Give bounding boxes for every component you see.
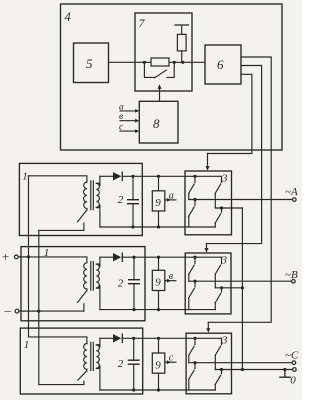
diode VDB: [100, 256, 113, 258]
DC rail positive to inverter: [122, 337, 221, 339]
transformer TC core: [91, 342, 94, 370]
neutral bus vertical from phase A: [241, 208, 243, 370]
svg-text:–: –: [4, 303, 12, 318]
node capacitor bottom: [131, 225, 134, 228]
capacitor CC (label 2): [133, 338, 135, 360]
transformer TA core: [91, 181, 94, 210]
block 6 (distributor): [205, 45, 241, 84]
node mid right leg: [220, 368, 223, 371]
DC rail negative: [100, 389, 215, 391]
unit 9 bottom stub: [158, 291, 160, 310]
phase output wire ~C: [189, 362, 292, 364]
inverter switch lower-right: [221, 208, 223, 212]
transformer TA secondary winding: [96, 183, 99, 207]
secondary top lead: [99, 176, 101, 185]
feedback output arrow a: [165, 199, 176, 201]
inverter block 3 (phase C): [186, 333, 231, 394]
inverter switch upper-right: [221, 176, 223, 182]
svg-text:1: 1: [24, 339, 30, 351]
node mid right leg: [220, 286, 223, 289]
neutral tap wire: [215, 207, 242, 209]
wire R2 bottom lead: [181, 51, 183, 62]
svg-text:в: в: [119, 112, 123, 122]
bus positive (vertical): [28, 176, 30, 337]
wire block6 out1 to phase C inverter: [208, 57, 271, 322]
output terminal ~B: [292, 280, 296, 284]
node unit 9 bottom: [157, 388, 160, 391]
feedback output arrow в: [165, 280, 176, 282]
wire 5 to 7: [109, 61, 152, 63]
resistor R2 (vertical, in block 7): [177, 34, 186, 51]
svg-text:a: a: [169, 190, 174, 201]
switch S1 bypassing R1: [144, 62, 174, 77]
node capacitor top: [131, 175, 134, 178]
node plus bus junction: [27, 255, 30, 258]
node capacitor bottom: [132, 388, 135, 391]
inverter switch upper-left: [194, 338, 196, 344]
svg-text:1: 1: [22, 171, 28, 183]
svg-text:в: в: [169, 271, 174, 282]
unit 9 top stub: [158, 176, 160, 191]
svg-text:2: 2: [118, 358, 124, 370]
node top rail left leg: [193, 175, 196, 178]
inverter switch lower-left: [194, 200, 196, 206]
inverter switch lower-left: [194, 363, 196, 369]
transformer TB primary winding: [84, 263, 87, 289]
node: switch left tap: [143, 61, 146, 64]
output terminal ~C: [292, 361, 296, 365]
unit 9 top stub: [158, 257, 160, 270]
output terminal ~A: [293, 198, 297, 202]
inverter top rail: [221, 256, 223, 258]
unit 9 bottom stub: [158, 211, 160, 227]
svg-text:5: 5: [86, 56, 93, 71]
block 8 (phase control): [139, 101, 178, 143]
input c of block 8: [120, 130, 136, 132]
capacitor CB (label 2): [133, 257, 135, 280]
unit 9 top stub: [158, 338, 160, 353]
feedback output arrow с: [165, 361, 176, 363]
svg-text:~C: ~C: [285, 349, 299, 361]
inverter switch lower-right: [221, 288, 223, 292]
node: R2 tap: [181, 61, 184, 64]
phase output wire ~B: [189, 280, 292, 282]
svg-text:8: 8: [153, 116, 160, 131]
control arrow from block 8 to S1: [159, 89, 161, 102]
converter cell block 1 (phase C): [20, 328, 142, 394]
switch S1 blade: [155, 70, 167, 78]
terminal T above R2: [175, 25, 189, 34]
neutral tap wire: [215, 287, 242, 289]
svg-text:2: 2: [118, 278, 124, 290]
block 7 (regulator): [135, 13, 192, 91]
DC rail positive to inverter: [122, 256, 221, 258]
measuring unit 9 (phase B): [152, 270, 165, 290]
inverter switch lower-left: [194, 281, 196, 287]
DC rail positive to inverter: [122, 175, 221, 177]
control unit block 4: [61, 4, 283, 150]
input a of block 8: [120, 110, 136, 112]
node: switch right tap: [173, 61, 176, 64]
node unit 9 top: [157, 337, 160, 340]
inverter switch upper-left: [194, 257, 196, 263]
svg-text:с: с: [169, 353, 174, 364]
wire block6 out3 to phase A inverter: [208, 74, 252, 153]
node top rail left leg: [193, 337, 196, 340]
DC rail negative: [100, 226, 215, 228]
svg-text:0: 0: [290, 375, 296, 387]
secondary bottom lead: [99, 286, 101, 310]
switch in primary loop: [86, 289, 88, 291]
converter cell block 1 (phase A): [19, 163, 142, 235]
switch in primary loop: [86, 369, 88, 371]
svg-text:а: а: [119, 102, 124, 112]
svg-text:4: 4: [65, 10, 71, 24]
svg-text:9: 9: [155, 277, 161, 289]
switch in primary loop: [86, 209, 88, 211]
svg-text:2: 2: [118, 194, 124, 206]
primary loop bottom wire: [39, 384, 84, 386]
node capacitor top: [132, 337, 135, 340]
secondary top lead: [99, 338, 101, 347]
svg-text:+: +: [1, 249, 10, 264]
primary loop top wire: [18, 257, 87, 263]
neutral tap wire: [215, 369, 292, 371]
resistor R1 (horizontal, in block 7): [151, 58, 169, 66]
node capacitor top: [132, 256, 135, 259]
inverter switch upper-left: [194, 176, 196, 182]
svg-text:9: 9: [155, 359, 161, 371]
node unit 9 top: [157, 256, 160, 259]
node unit 9 bottom: [157, 225, 160, 228]
transformer TC primary winding: [84, 344, 87, 370]
node mid left leg: [193, 198, 196, 201]
svg-text:7: 7: [139, 16, 146, 30]
node unit 9 bottom: [157, 308, 160, 311]
svg-text:~B: ~B: [285, 269, 298, 281]
node unit 9 top: [157, 175, 160, 178]
wire minus terminal to bus: [19, 310, 39, 312]
primary loop top wire: [29, 337, 87, 344]
inverter block 3 (phase B): [185, 253, 231, 314]
node neutral bus at phase B tap: [241, 286, 244, 289]
wire R1 to block 6: [169, 61, 205, 63]
capacitor CA (label 2): [132, 176, 134, 199]
input b of block 8: [120, 120, 136, 122]
DC rail negative: [100, 309, 215, 311]
secondary bottom lead: [99, 205, 101, 227]
diode VDC: [100, 337, 113, 339]
inverter switch lower-right: [221, 370, 223, 374]
inverter switch upper-right: [221, 257, 223, 263]
svg-text:6: 6: [217, 57, 224, 72]
transformer TB secondary winding: [96, 264, 99, 288]
secondary top lead: [99, 257, 101, 266]
unit 9 bottom stub: [158, 373, 160, 390]
svg-text:~A: ~A: [285, 186, 298, 198]
primary loop top wire: [29, 176, 87, 182]
primary loop bottom wire: [39, 229, 84, 231]
zero output terminal: [293, 368, 297, 372]
transformer TC secondary winding: [96, 345, 99, 368]
wire block6 out2 to phase B inverter: [207, 66, 262, 244]
svg-text:9: 9: [155, 197, 161, 209]
node mid right leg: [220, 206, 223, 209]
node ground tap: [283, 368, 286, 371]
ground symbol: [280, 370, 290, 378]
inverter top rail: [221, 337, 223, 339]
node mid left leg: [193, 361, 196, 364]
block 5 (master oscillator): [74, 43, 109, 83]
node capacitor bottom: [132, 308, 135, 311]
node minus bus junction: [37, 310, 40, 313]
inverter top rail: [221, 175, 223, 177]
phase output wire ~A: [189, 199, 292, 201]
transformer TB core: [91, 262, 94, 291]
diode VDA: [100, 175, 113, 177]
wire plus terminal to bus: [18, 256, 28, 258]
node neutral joins zero line: [241, 368, 244, 371]
bus negative (vertical): [38, 230, 40, 384]
transformer TA primary winding: [84, 182, 87, 209]
inverter switch upper-right: [221, 338, 223, 344]
measuring unit 9 (phase A): [152, 191, 165, 211]
measuring unit 9 (phase C): [152, 353, 165, 373]
node mid left leg: [193, 280, 196, 283]
node top rail left leg: [193, 256, 196, 259]
primary loop bottom wire: [19, 310, 84, 312]
inverter block 3 (phase A): [185, 171, 232, 235]
secondary bottom lead: [99, 366, 101, 390]
converter cell block 1 (phase B): [21, 247, 145, 321]
